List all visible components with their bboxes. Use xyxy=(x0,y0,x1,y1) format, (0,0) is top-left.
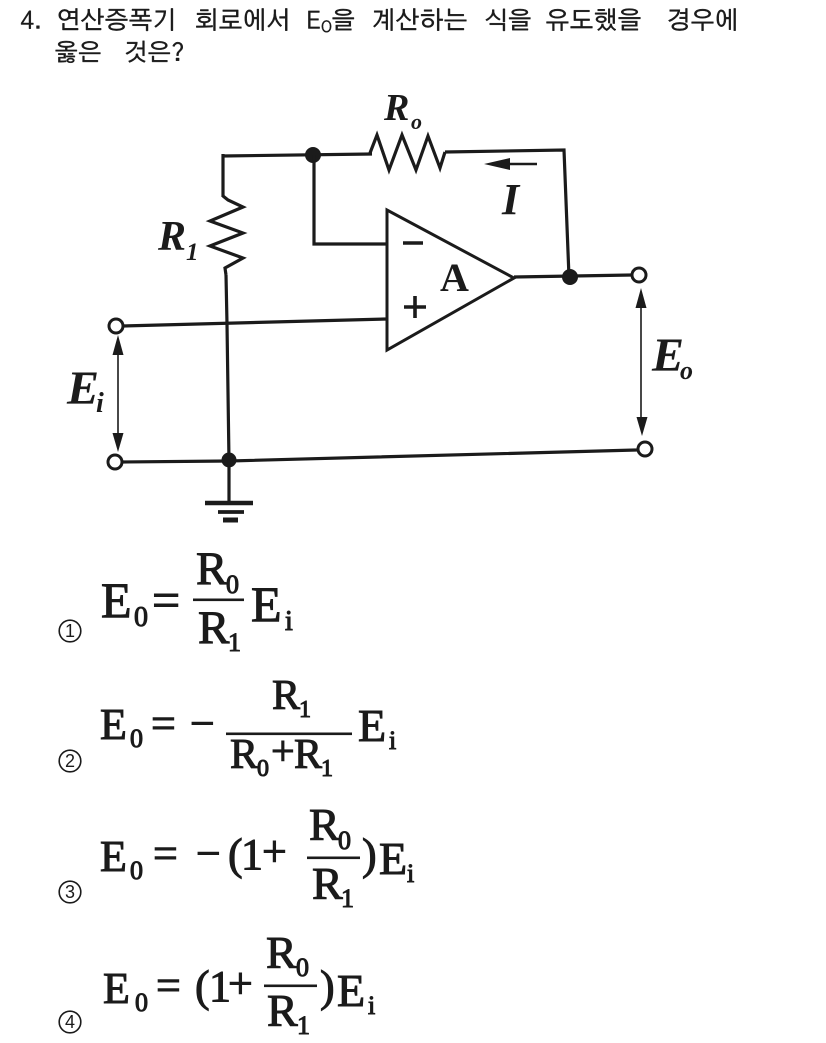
svg-text:R: R xyxy=(266,927,297,978)
svg-text:R: R xyxy=(157,214,186,260)
equation 3 xyxy=(59,799,414,913)
svg-text:E: E xyxy=(337,965,365,1016)
wire inverting input xyxy=(314,155,387,244)
svg-text:0: 0 xyxy=(130,724,143,753)
svg-text:0: 0 xyxy=(296,953,309,982)
label R1 xyxy=(157,214,199,266)
svg-text:R: R xyxy=(383,87,409,129)
svg-text:E: E xyxy=(103,964,130,1013)
svg-text:R: R xyxy=(272,673,300,719)
svg-text:0: 0 xyxy=(257,756,269,782)
op-amp minus pin mark xyxy=(403,241,423,245)
wire Ro right to output node (feedback) xyxy=(445,150,569,277)
svg-text:): ) xyxy=(320,962,335,1011)
svg-text:0: 0 xyxy=(338,826,351,855)
svg-text:i: i xyxy=(96,388,104,419)
resistor Ro xyxy=(370,135,445,170)
terminal input bottom xyxy=(108,455,122,469)
label Eo xyxy=(651,329,693,385)
svg-text:R: R xyxy=(230,732,258,778)
svg-text:A: A xyxy=(440,255,469,300)
svg-text:4: 4 xyxy=(65,1012,75,1032)
wire non-inverting input xyxy=(122,319,387,326)
svg-text:1: 1 xyxy=(241,830,263,879)
label I xyxy=(501,175,521,224)
svg-text:o: o xyxy=(680,356,693,385)
op-amp plus pin mark xyxy=(404,296,426,318)
svg-text:1: 1 xyxy=(186,239,199,266)
svg-text:E: E xyxy=(66,362,99,415)
label Ei xyxy=(66,362,104,419)
ground xyxy=(205,461,253,520)
svg-text:0: 0 xyxy=(134,602,148,633)
current arrow I xyxy=(484,158,537,170)
svg-text:R: R xyxy=(196,543,228,595)
svg-text:E: E xyxy=(358,700,386,751)
svg-text:i: i xyxy=(389,726,396,755)
svg-text:R: R xyxy=(267,985,298,1036)
svg-text:R: R xyxy=(312,858,343,909)
wire R1 top vertical xyxy=(221,154,224,197)
label Ro xyxy=(383,87,422,134)
svg-text:E: E xyxy=(100,700,127,749)
svg-text:+: + xyxy=(228,959,253,1008)
svg-text:i: i xyxy=(407,859,414,888)
equation 4 xyxy=(59,927,375,1040)
svg-text:−: − xyxy=(190,699,215,748)
svg-text:(: ( xyxy=(195,962,210,1011)
terminal output top xyxy=(632,268,646,282)
svg-text:i: i xyxy=(285,606,293,637)
node output junction xyxy=(562,269,578,285)
svg-text:1: 1 xyxy=(321,756,333,782)
svg-text:1: 1 xyxy=(341,884,354,913)
wire top net from R1 top to Ro left xyxy=(222,154,372,156)
title line 2 xyxy=(56,41,183,63)
svg-text:+: + xyxy=(262,827,287,876)
svg-text:E: E xyxy=(101,572,132,628)
title line 1 xyxy=(21,8,736,32)
svg-text:1: 1 xyxy=(299,697,311,723)
svg-text:0: 0 xyxy=(226,570,239,599)
svg-text:=: = xyxy=(156,961,181,1010)
svg-text:1: 1 xyxy=(65,621,75,641)
svg-text:R: R xyxy=(198,602,230,654)
svg-text:1: 1 xyxy=(228,628,241,657)
svg-text:E: E xyxy=(100,832,127,881)
svg-text:−: − xyxy=(196,829,221,878)
op-amp A xyxy=(387,210,514,350)
svg-text:=: = xyxy=(152,572,180,628)
svg-text:0: 0 xyxy=(130,856,143,885)
equation 2 xyxy=(59,673,396,782)
wire output xyxy=(514,275,632,277)
node bottom junction xyxy=(222,453,237,468)
wire bottom net xyxy=(122,450,637,462)
svg-text:i: i xyxy=(368,991,375,1020)
terminal output bottom xyxy=(638,442,652,456)
svg-text:0: 0 xyxy=(135,988,148,1017)
equation 1 xyxy=(59,543,293,657)
svg-text:E: E xyxy=(379,833,407,884)
svg-text:=: = xyxy=(151,699,176,748)
svg-text:1: 1 xyxy=(297,1011,310,1038)
svg-text:): ) xyxy=(362,830,377,879)
terminal input top xyxy=(109,319,123,333)
svg-text:E: E xyxy=(251,576,282,632)
svg-text:R: R xyxy=(294,732,322,778)
arrow Eo xyxy=(636,288,648,436)
arrow Ei xyxy=(113,335,124,452)
svg-text:3: 3 xyxy=(65,882,75,902)
resistor R1 xyxy=(210,196,243,275)
svg-text:o: o xyxy=(411,109,422,134)
svg-text:=: = xyxy=(153,829,178,878)
svg-text:2: 2 xyxy=(65,751,75,771)
wire R1 bottom vertical to ground junction xyxy=(226,275,229,461)
node top junction xyxy=(305,147,321,163)
svg-text:I: I xyxy=(501,175,521,224)
svg-text:+: + xyxy=(271,729,295,775)
svg-text:R: R xyxy=(309,799,340,850)
